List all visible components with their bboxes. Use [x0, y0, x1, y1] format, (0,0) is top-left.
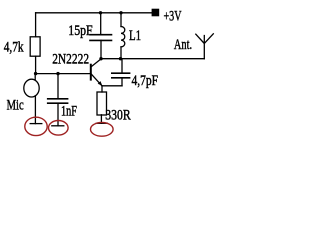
- wire R1 bottom to base node: [35, 56, 37, 73]
- svg-text:2N2222: 2N2222: [52, 52, 89, 68]
- svg-text:+3V: +3V: [164, 9, 182, 25]
- wire 4.7pF top lead: [121, 59, 123, 73]
- node dot base/1nF: [56, 72, 59, 75]
- ground bar 1nF: [52, 125, 64, 127]
- svg-text:Mic: Mic: [7, 98, 24, 114]
- wire mic to ground: [34, 96, 36, 124]
- svg-text:4,7k: 4,7k: [4, 40, 24, 56]
- wire mic top lead: [34, 74, 36, 80]
- capacitor C1 15pF plates: [90, 35, 112, 41]
- transistor Q1 collector stroke: [92, 59, 102, 67]
- wire 15pF top lead: [100, 13, 102, 35]
- svg-text:4,7pF: 4,7pF: [132, 73, 159, 89]
- svg-text:15pF: 15pF: [68, 23, 92, 39]
- transistor Q1 emitter arrowhead: [98, 81, 103, 86]
- node dot collector/L1: [119, 57, 122, 60]
- svg-text:L1: L1: [129, 28, 141, 44]
- node dot top/15pF: [99, 11, 102, 14]
- wire L1 bottom lead: [120, 47, 122, 59]
- svg-text:1nF: 1nF: [61, 104, 77, 120]
- ground circle red 1nF: [49, 121, 69, 136]
- inductor L1 coil: [121, 27, 125, 47]
- wire 1nF to ground: [57, 103, 59, 126]
- resistor R1 body: [30, 37, 40, 56]
- transistor Q1 emitter stroke: [92, 74, 102, 85]
- capacitor C2 1nF plates: [48, 99, 68, 103]
- wire top rail: [36, 12, 152, 14]
- wire base: [36, 73, 91, 75]
- wire emitter to R2: [101, 86, 103, 92]
- wire emitter horizontal: [102, 85, 122, 87]
- node dot top/L1: [119, 11, 122, 14]
- wire collector rail to antenna: [101, 58, 204, 60]
- wire 1nF branch: [57, 74, 59, 99]
- wire L1 top lead: [120, 13, 122, 27]
- wire R2 to ground: [100, 115, 102, 124]
- capacitor C3 4.7pF plates: [112, 73, 130, 78]
- ground bar 330R: [96, 122, 107, 124]
- ground bar mic: [30, 123, 42, 125]
- transistor Q1 base bar: [90, 65, 92, 80]
- ground circle red 330R: [91, 122, 114, 136]
- antenna ANT symbol: [196, 34, 214, 59]
- svg-text:330R: 330R: [105, 108, 130, 124]
- ground circle red mic: [25, 117, 47, 135]
- microphone MIC circle: [24, 79, 39, 97]
- resistor R2 330R body: [97, 92, 107, 115]
- wire 15pF bottom lead: [100, 40, 102, 58]
- wire 4.7pF bottom lead: [121, 78, 123, 86]
- node dot base/mic: [34, 72, 37, 75]
- node dot collector/15pF: [99, 57, 102, 60]
- power terminal square +3V: [152, 9, 160, 17]
- svg-text:Ant.: Ant.: [174, 37, 192, 53]
- wire left rail down to R1: [35, 13, 37, 37]
